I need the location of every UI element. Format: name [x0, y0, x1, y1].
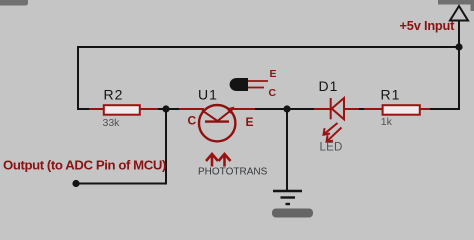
resistor R1	[364, 105, 432, 115]
wire top horizontal	[78, 46, 459, 48]
wire output branch horizontal	[76, 183, 167, 185]
resistor R2	[89, 105, 160, 115]
phototransistor U1	[179, 105, 256, 141]
svg-text:+5v Input: +5v Input	[400, 18, 456, 33]
wire ground branch vertical	[286, 109, 288, 191]
LED emission arrows	[324, 123, 342, 142]
wire segment R1 to right vertical	[430, 108, 460, 110]
power flag +5v arrow	[450, 6, 468, 47]
svg-text:C: C	[269, 87, 277, 99]
svg-text:R2: R2	[104, 87, 124, 103]
wire segment R2 to node A	[158, 108, 181, 110]
phototransistor package icon (black bullet)	[230, 78, 268, 91]
wire output branch vertical	[165, 109, 167, 185]
svg-text:E: E	[270, 68, 277, 80]
svg-text:LED: LED	[320, 142, 343, 154]
light arrows into phototransistor	[206, 154, 231, 167]
svg-text:E: E	[246, 115, 254, 129]
edge artifact bottom-center (cut-off dark page element)	[272, 209, 313, 218]
svg-text:Output (to ADC Pin of MCU): Output (to ADC Pin of MCU)	[3, 157, 166, 172]
svg-text:U1: U1	[198, 87, 218, 103]
svg-text:PHOTOTRANS: PHOTOTRANS	[198, 167, 268, 178]
svg-text:R1: R1	[381, 87, 401, 103]
node B junction dot (ground node)	[283, 105, 290, 112]
edge artifact top-right (cut-off dark page element)	[438, 0, 474, 11]
svg-text:D1: D1	[319, 78, 339, 94]
node +5v junction dot	[455, 43, 462, 50]
wire right vertical	[458, 46, 460, 110]
wire segment D1 to R1	[359, 108, 366, 110]
wire segment corner to R2	[77, 108, 91, 110]
svg-text:C: C	[188, 114, 197, 128]
svg-text:33k: 33k	[103, 117, 121, 129]
svg-text:1k: 1k	[381, 116, 393, 128]
LED D1	[314, 98, 362, 119]
ground	[273, 191, 302, 204]
node A junction dot (output node)	[162, 105, 169, 112]
edge artifact top-left (cut-off dark page element)	[0, 0, 28, 6]
wire left vertical	[77, 46, 79, 110]
wire segment node A to node B	[255, 108, 316, 110]
output terminal dot	[72, 180, 79, 187]
